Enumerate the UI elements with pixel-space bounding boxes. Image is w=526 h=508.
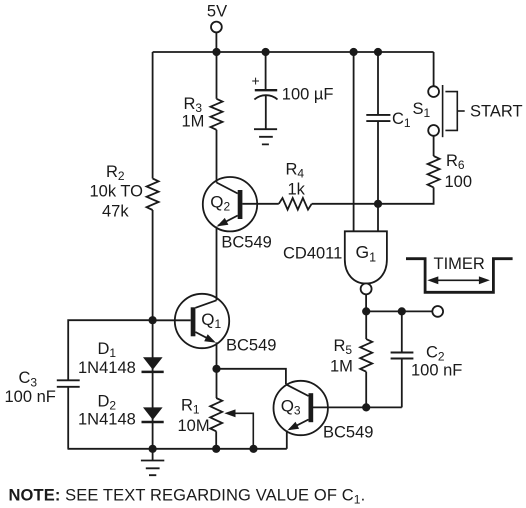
wire R5 top (365, 311, 367, 339)
wire C1 node to gate input B (377, 204, 379, 232)
5V label (207, 3, 227, 21)
wire rail to S1 (433, 52, 435, 86)
node output-C2 (398, 307, 406, 315)
svg-text:1k: 1k (288, 181, 306, 199)
svg-text:10k TO: 10k TO (90, 183, 144, 201)
node rail-C100uF (262, 48, 270, 56)
svg-text:START: START (470, 103, 523, 121)
svg-text:CD4011: CD4011 (283, 245, 342, 263)
svg-text:NOTE: SEE TEXT REGARDING VALUE: NOTE: SEE TEXT REGARDING VALUE OF C1. (9, 487, 366, 507)
node ground-wiper (249, 445, 257, 453)
node Q1 base / C3 (149, 316, 157, 324)
wire Q3 base rail (313, 406, 402, 408)
node R4/C1 (374, 200, 382, 208)
svg-text:BC549: BC549 (221, 233, 271, 251)
ground symbol (main) (141, 449, 164, 475)
node rail-R3 (212, 48, 220, 56)
wire Q3 emitter (286, 431, 288, 449)
capacitor C3 (57, 380, 80, 387)
diode D2 (78, 393, 164, 429)
svg-text:BC549: BC549 (323, 424, 373, 442)
resistor R2 (147, 179, 159, 211)
5V terminal (211, 22, 222, 33)
output terminal (432, 306, 443, 317)
wire Q1 emitter branch to Q3 collector (217, 369, 286, 385)
wire C3 bottom branch (67, 387, 69, 449)
wire base node to ground through diodes (152, 320, 154, 449)
svg-text:47k: 47k (102, 203, 129, 221)
svg-text:100 nF: 100 nF (5, 388, 56, 406)
node ground-D2 (149, 445, 157, 453)
node rail-C1 (374, 48, 382, 56)
svg-text:5V: 5V (207, 3, 227, 21)
capacitor 100uF (252, 52, 334, 129)
resistor R5 (360, 339, 372, 372)
capacitor C2 (391, 311, 463, 407)
resistor R4 (242, 203, 278, 205)
wire top power rail (153, 51, 434, 53)
resistor R6 (428, 156, 440, 187)
transistor Q2 (203, 177, 272, 251)
wire R5 bottom (365, 372, 367, 408)
node Q1 emitter / Q3 collector (212, 365, 220, 373)
svg-text:1M: 1M (182, 113, 205, 131)
svg-text:1M: 1M (330, 358, 353, 376)
transistor Q3 (274, 381, 374, 442)
svg-text:BC549: BC549 (226, 337, 276, 355)
wire output to terminal (366, 310, 432, 312)
wire R2 to base node (152, 210, 154, 320)
wire R4 to R6 bottom (312, 187, 434, 203)
wire R1 bottom (215, 431, 217, 449)
resistor R3 (211, 99, 223, 130)
svg-text:100: 100 (445, 173, 473, 191)
wire C3 top branch (68, 320, 152, 380)
svg-text:TIMER: TIMER (434, 255, 485, 273)
wire left rail to R2 (152, 52, 154, 179)
wire gate output (365, 294, 367, 311)
resistor R1 (trimmer) (178, 397, 254, 449)
wire R3 to Q2 collector (216, 130, 218, 183)
svg-text:1N4148: 1N4148 (78, 411, 136, 429)
gate G1 (CD4011 NAND) (283, 231, 387, 294)
svg-text:+: + (252, 72, 260, 88)
wire S1 to R6 (433, 136, 435, 156)
svg-text:1N4148: 1N4148 (78, 359, 136, 377)
wire rail to gate input A (353, 52, 355, 231)
transistor Q1 (153, 294, 277, 355)
TIMER waveform (406, 255, 513, 293)
switch S1 (413, 85, 523, 137)
ground symbol (100uF) (254, 129, 277, 144)
note text (9, 487, 366, 507)
svg-text:100 nF: 100 nF (411, 361, 462, 379)
node ground-R1 (212, 445, 220, 453)
capacitor C1 (366, 52, 411, 204)
svg-text:100 µF: 100 µF (282, 86, 334, 104)
wire Q2 emitter to Q1 collector (216, 227, 218, 301)
wire rail to R3 (216, 52, 218, 99)
diode D1 (78, 340, 164, 377)
node output-R5 (362, 307, 370, 315)
wire Q1 emitter to R1 (216, 342, 218, 398)
svg-text:10M: 10M (178, 417, 210, 435)
wire ground rail (bottom) (68, 448, 287, 450)
node R5/Q3 base (362, 403, 370, 411)
node rail-gate input (350, 48, 358, 56)
wire 5V stub (215, 33, 217, 52)
